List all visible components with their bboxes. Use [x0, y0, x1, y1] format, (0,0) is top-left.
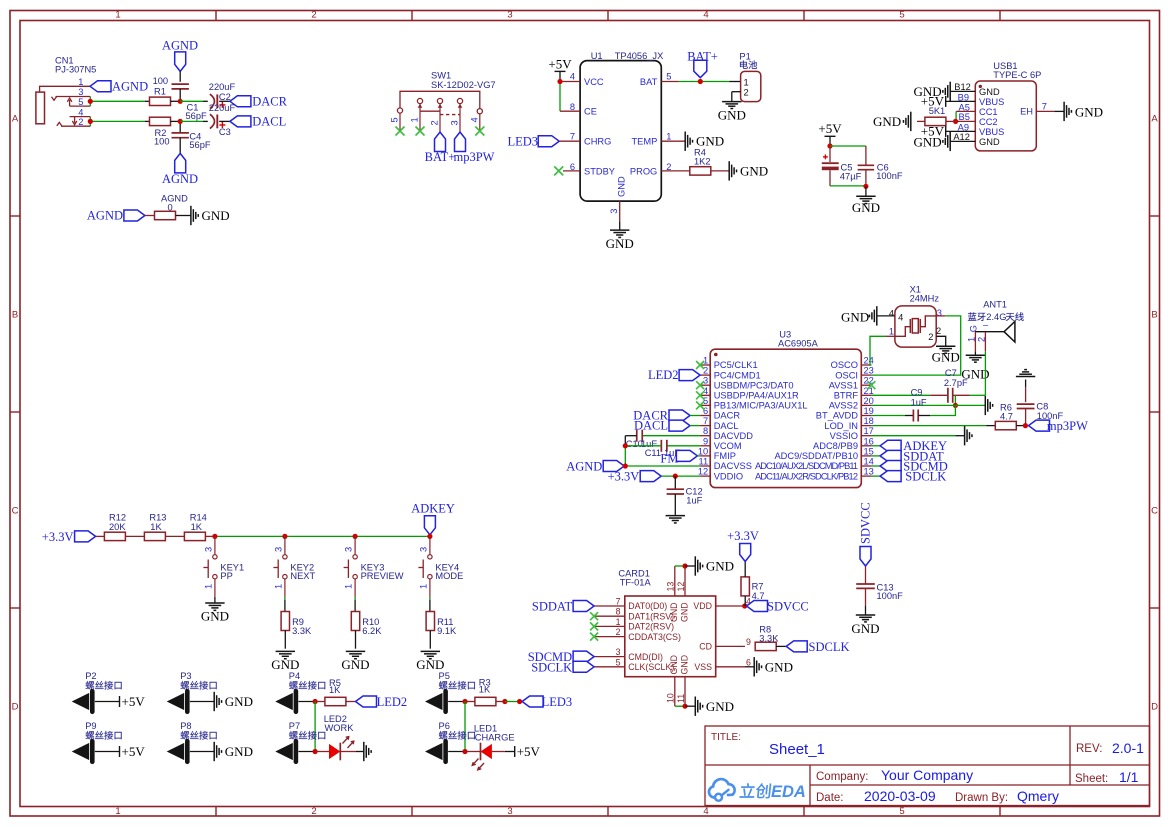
- svg-text:A: A: [1151, 114, 1158, 125]
- svg-text:PC5/CLK1: PC5/CLK1: [714, 360, 758, 370]
- ground at AVSS2: [871, 396, 992, 415]
- svg-text:AVSS1: AVSS1: [829, 380, 858, 390]
- ground at X1 pin2: [932, 336, 960, 364]
- svg-text:DACL: DACL: [634, 419, 668, 433]
- svg-text:3: 3: [507, 806, 512, 817]
- svg-text:GND: GND: [765, 659, 793, 674]
- svg-text:20: 20: [864, 396, 874, 406]
- svg-text:B12: B12: [954, 82, 971, 92]
- svg-text:TF-01A: TF-01A: [620, 578, 652, 588]
- svg-text:1K: 1K: [479, 685, 491, 695]
- svg-text:D: D: [12, 702, 19, 713]
- svg-text:17: 17: [864, 426, 874, 436]
- USB1 A9 +5V: [921, 123, 976, 138]
- connector P1 battery: [732, 51, 761, 101]
- LED LED2 WORK: [315, 714, 364, 760]
- svg-text:1: 1: [889, 327, 894, 337]
- svg-text:1: 1: [410, 117, 420, 122]
- svg-text:LED2: LED2: [648, 368, 679, 382]
- svg-text:4: 4: [470, 117, 480, 122]
- svg-text:GND: GND: [669, 602, 679, 622]
- connector P8: [167, 721, 217, 762]
- resistor R15 0ohm: [155, 194, 191, 220]
- svg-text:100: 100: [153, 76, 169, 86]
- U1 pin names: [584, 77, 658, 197]
- svg-text:GND: GND: [718, 107, 746, 122]
- svg-text:1/1: 1/1: [1119, 769, 1139, 785]
- svg-text:16: 16: [864, 436, 874, 446]
- net flag LED2 at U3 pin2: [648, 368, 700, 382]
- wire X1 pin1 to OSCO: [870, 336, 895, 365]
- svg-text:D: D: [1151, 702, 1158, 713]
- ground under C12: [666, 516, 685, 523]
- no-connect U1 STDBY: [554, 166, 580, 175]
- svg-text:2: 2: [430, 120, 440, 125]
- svg-text:1: 1: [78, 77, 83, 87]
- connector P7: [275, 721, 325, 762]
- resistor R12 20K: [104, 513, 144, 541]
- svg-text:B: B: [12, 310, 18, 321]
- capacitor C7 2.7pF: [871, 368, 985, 403]
- svg-text:Sheet_1: Sheet_1: [769, 741, 825, 758]
- wire U1 BAT to P1: [661, 79, 740, 84]
- U3 left pin names: [714, 360, 808, 481]
- ground at ANT1 pin1: [961, 351, 989, 381]
- net flag SDCMD at CARD1: [528, 650, 594, 664]
- net flag DACL at U3 pin7: [634, 419, 700, 433]
- resistor R6 4.7: [995, 403, 1025, 430]
- key KEY2 NEXT: [273, 534, 315, 612]
- net flag BAT+ at SW1: [425, 132, 456, 164]
- svg-text:18: 18: [864, 416, 874, 426]
- svg-text:1: 1: [966, 337, 976, 342]
- CARD1 bottom GND pins 10 11: [675, 677, 734, 716]
- svg-text:DACL: DACL: [714, 421, 739, 431]
- USB1 B12 ground: [914, 82, 976, 101]
- svg-text:CE: CE: [584, 107, 597, 117]
- ground at R15: [191, 206, 230, 225]
- svg-text:+5V: +5V: [517, 744, 541, 759]
- USB1 pin numbers: [953, 82, 1047, 142]
- svg-text:100nF: 100nF: [876, 171, 903, 181]
- svg-text:GND: GND: [841, 309, 869, 324]
- svg-text:FMIP: FMIP: [714, 451, 736, 461]
- svg-text:PJ-307N5: PJ-307N5: [55, 65, 96, 75]
- svg-text:3: 3: [203, 547, 213, 552]
- connector P6: [425, 721, 475, 762]
- svg-text:mp3PW: mp3PW: [454, 150, 495, 164]
- svg-text:4: 4: [78, 107, 83, 117]
- net flag DACR: [230, 94, 288, 108]
- net flag DACR at U3 pin6: [633, 409, 700, 423]
- svg-text:DAT1(RSV): DAT1(RSV): [628, 611, 674, 621]
- svg-text:3: 3: [616, 647, 621, 657]
- svg-text:P3: P3: [180, 671, 191, 681]
- svg-text:2.0-1: 2.0-1: [1112, 740, 1144, 756]
- svg-text:ANT1: ANT1: [983, 299, 1007, 309]
- svg-text:DAT2(RSV): DAT2(RSV): [628, 622, 674, 632]
- wire P5 to P6: [464, 702, 466, 752]
- no-connect U3 pin1: [696, 361, 704, 369]
- svg-text:6: 6: [746, 657, 751, 667]
- svg-text:AGND: AGND: [162, 172, 198, 186]
- resistor R8 3.3K: [755, 624, 786, 650]
- svg-text:GND: GND: [852, 200, 880, 215]
- svg-text:20K: 20K: [109, 522, 126, 532]
- crystal X1 24MHz: [895, 285, 939, 348]
- svg-text:VCOM: VCOM: [714, 441, 742, 451]
- svg-text:U1: U1: [591, 51, 603, 61]
- ground at U1 PROG: [729, 161, 768, 180]
- net flag SDDAT at U3 pin15: [871, 449, 944, 463]
- CARD1 left pin stubs: [594, 606, 625, 667]
- net flag ADKEY at U3 pin16: [871, 439, 947, 453]
- svg-text:GND: GND: [706, 699, 734, 714]
- svg-text:ADC8/PB9: ADC8/PB9: [813, 441, 858, 451]
- svg-text:SDCLK: SDCLK: [905, 470, 946, 484]
- power +5V at P2: [120, 694, 146, 709]
- ground at VSSIO: [871, 426, 972, 445]
- svg-text:C3: C3: [219, 127, 231, 137]
- svg-text:9: 9: [746, 637, 751, 647]
- svg-text:BAT+: BAT+: [425, 150, 456, 164]
- svg-text:1K: 1K: [150, 522, 162, 532]
- svg-text:ADC11/AUX2R/SDCLK/PB12: ADC11/AUX2R/SDCLK/PB12: [755, 471, 858, 481]
- svg-text:2: 2: [936, 326, 941, 336]
- svg-text:R1: R1: [154, 87, 166, 97]
- net flag FM at U3 pin10: [660, 450, 700, 465]
- title text: [711, 732, 1144, 804]
- capacitor C5 47uF: [822, 143, 862, 186]
- key KEY3 PREVIEW: [344, 534, 404, 612]
- svg-text:+5V: +5V: [548, 56, 572, 71]
- svg-text:DACR: DACR: [714, 411, 741, 421]
- svg-text:3: 3: [344, 547, 354, 552]
- svg-text:GND: GND: [225, 694, 253, 709]
- wire CARD1 VDD: [716, 603, 748, 608]
- svg-text:4.7: 4.7: [1000, 412, 1013, 422]
- svg-text:SDVCC: SDVCC: [767, 600, 809, 614]
- svg-text:220uF: 220uF: [209, 103, 236, 113]
- svg-text:B5: B5: [959, 112, 970, 122]
- connector P4: [275, 671, 325, 712]
- wire ADKEY bus: [215, 535, 430, 537]
- svg-text:ADKEY: ADKEY: [411, 501, 455, 515]
- USB1 CC1-CC2 wire: [953, 111, 975, 124]
- svg-text:P5: P5: [439, 671, 450, 681]
- svg-text:AGND: AGND: [566, 460, 602, 474]
- no-connect U3 pin4: [696, 391, 704, 399]
- power flag AGND above C1: [162, 39, 198, 82]
- svg-text:BT_AVDD: BT_AVDD: [816, 411, 858, 421]
- svg-text:1K: 1K: [329, 685, 341, 695]
- svg-text:DAT0(D0): DAT0(D0): [628, 601, 667, 611]
- svg-text:GND: GND: [979, 137, 1000, 147]
- svg-text:2: 2: [703, 366, 708, 376]
- no-connect CARD1 pin8: [590, 612, 598, 620]
- svg-text:+3.3V: +3.3V: [608, 470, 640, 484]
- svg-text:SK-12D02-VG7: SK-12D02-VG7: [431, 80, 496, 90]
- svg-text:1: 1: [418, 584, 428, 589]
- svg-text:LED2: LED2: [377, 695, 408, 709]
- U1 pin numbers: [570, 72, 672, 214]
- svg-text:GND: GND: [341, 657, 369, 672]
- net flag AGND at CN1 pin1: [90, 80, 148, 94]
- svg-text:LOD_IN: LOD_IN: [824, 421, 858, 431]
- svg-text:Date:: Date:: [816, 792, 844, 804]
- wire CARD1 CD: [716, 645, 745, 647]
- ground under C13: [851, 606, 879, 636]
- svg-text:13: 13: [864, 467, 874, 477]
- frame column numbers: [115, 10, 904, 818]
- net flag SDVCC above C13: [859, 502, 873, 566]
- junction R1-C1: [178, 99, 208, 104]
- svg-text:12: 12: [698, 467, 708, 477]
- connector P5: [425, 671, 475, 712]
- svg-text:PB13/MIC/PA3/AUX1L: PB13/MIC/PA3/AUX1L: [714, 401, 808, 411]
- resistor R1: [150, 76, 181, 106]
- svg-text:CC1: CC1: [979, 107, 998, 117]
- svg-text:Company:: Company:: [816, 771, 868, 783]
- svg-text:GND: GND: [1075, 104, 1103, 119]
- wire P4 to P7: [314, 702, 316, 752]
- svg-text:24: 24: [864, 356, 874, 366]
- power +5V at U1 VCC: [548, 56, 572, 81]
- power flag AGND below C4: [162, 153, 198, 186]
- svg-text:GND: GND: [669, 655, 679, 675]
- svg-text:+5V: +5V: [818, 121, 842, 136]
- capacitor C2: [209, 82, 236, 108]
- SW1 pin numbers: [390, 117, 480, 125]
- svg-text:Drawn By:: Drawn By:: [955, 792, 1008, 804]
- svg-text:VDD: VDD: [693, 601, 712, 611]
- svg-text:DACVDD: DACVDD: [714, 431, 754, 441]
- capacitor C11: [623, 440, 700, 458]
- resistor R5 1K: [315, 678, 355, 706]
- svg-text:6: 6: [703, 406, 708, 416]
- ground at P8: [214, 742, 253, 761]
- svg-text:+5V: +5V: [122, 744, 146, 759]
- U3 right pin names: [755, 360, 858, 481]
- svg-text:MODE: MODE: [435, 571, 463, 581]
- svg-text:CHRG: CHRG: [584, 137, 611, 147]
- svg-text:2: 2: [616, 627, 621, 637]
- power +5V at C5: [818, 121, 842, 146]
- svg-text:4: 4: [703, 386, 708, 396]
- svg-text:DACR: DACR: [252, 94, 287, 108]
- svg-text:2020-03-09: 2020-03-09: [864, 788, 936, 804]
- svg-text:LED3: LED3: [542, 695, 573, 709]
- ground at P3: [214, 692, 253, 711]
- junction R2-C4: [178, 119, 208, 124]
- svg-text:14: 14: [864, 457, 874, 467]
- svg-text:5: 5: [616, 657, 621, 667]
- svg-text:NEXT: NEXT: [290, 571, 315, 581]
- key KEY1 PP: [201, 534, 244, 624]
- svg-text:C8: C8: [1036, 402, 1048, 412]
- svg-text:5: 5: [666, 72, 671, 82]
- no-connect U3 pin5: [696, 401, 704, 409]
- ground at LED2: [364, 742, 371, 761]
- wire X1 pin3 to OSCI: [871, 316, 960, 375]
- net flag SDDAT at CARD1: [532, 600, 594, 614]
- net flag +3.3V at keys: [42, 530, 105, 544]
- svg-text:AGND: AGND: [112, 80, 148, 94]
- svg-text:GND: GND: [225, 744, 253, 759]
- power +5V at LED1: [515, 744, 541, 759]
- svg-text:CMD(DI): CMD(DI): [628, 652, 663, 662]
- wire jack pins 4-2 bridge: [88, 117, 150, 127]
- resistor R2: [150, 117, 181, 146]
- net flag mp3PW at R6: [1029, 419, 1089, 433]
- svg-text:100: 100: [154, 136, 170, 146]
- svg-text:PP: PP: [220, 571, 232, 581]
- CARD1 pin names: [628, 601, 712, 674]
- svg-text:P4: P4: [289, 671, 300, 681]
- IC CARD1 TF-01A body: [618, 569, 715, 677]
- svg-text:P6: P6: [439, 721, 450, 731]
- svg-text:SDCLK: SDCLK: [531, 661, 572, 675]
- net flag AGND at R15: [87, 209, 154, 223]
- svg-text:GND: GND: [617, 176, 627, 197]
- svg-text:4: 4: [889, 309, 894, 319]
- svg-text:A: A: [12, 114, 19, 125]
- svg-text:VSSIO: VSSIO: [830, 431, 858, 441]
- svg-text:3: 3: [450, 120, 460, 125]
- svg-text:1: 1: [273, 584, 283, 589]
- net flag LED3 at U1 CHRG: [507, 135, 580, 149]
- capacitor C13 100nF: [856, 566, 903, 606]
- net flag SDCMD at U3 pin14: [871, 459, 947, 473]
- svg-text:OSCO: OSCO: [831, 360, 858, 370]
- svg-text:WORK: WORK: [325, 723, 355, 733]
- svg-text:BTRF: BTRF: [834, 391, 859, 401]
- resistor R10 6.2K: [341, 612, 382, 673]
- antenna ANT1: [966, 299, 1023, 351]
- svg-text:C: C: [1151, 506, 1158, 517]
- svg-text:USBDM/PC3/DAT0: USBDM/PC3/DAT0: [714, 380, 794, 390]
- connector P2: [72, 671, 122, 712]
- svg-text:6.2K: 6.2K: [362, 626, 382, 636]
- svg-text:Sheet:: Sheet:: [1075, 773, 1108, 785]
- svg-text:GND: GND: [271, 657, 299, 672]
- svg-text:AVSS2: AVSS2: [829, 401, 858, 411]
- svg-text:3: 3: [78, 87, 83, 97]
- net flag mp3PW at SW1: [454, 132, 495, 164]
- power +5V at P9: [120, 744, 146, 759]
- svg-text:VCC: VCC: [584, 77, 604, 87]
- svg-text:GND: GND: [696, 134, 724, 149]
- svg-text:+5V: +5V: [122, 694, 146, 709]
- net flag LED2 at R5: [356, 695, 408, 709]
- capacitor C9 1uF: [871, 387, 955, 421]
- X1 pin numbers: [889, 308, 942, 342]
- wire jack pins 3-5 bridge: [88, 97, 150, 107]
- USB1 B9 +5V: [921, 94, 976, 109]
- capacitor C3: [209, 103, 236, 137]
- LED LED1 CHARGE: [465, 724, 515, 770]
- svg-text:ADC10/AUX2L/SDCMD/PB11: ADC10/AUX2L/SDCMD/PB11: [755, 461, 858, 471]
- svg-text:P8: P8: [180, 721, 191, 731]
- capacitor C6 100nF: [830, 146, 903, 186]
- svg-text:P7: P7: [289, 721, 300, 731]
- svg-text:4: 4: [898, 312, 903, 322]
- svg-text:AGND: AGND: [161, 194, 188, 204]
- svg-text:1K: 1K: [191, 522, 203, 532]
- net flag LED3 at R3: [522, 695, 572, 709]
- svg-text:mp3PW: mp3PW: [1047, 419, 1088, 433]
- wire R3 to LED3: [502, 699, 522, 704]
- net flag ADKEY above KEY4: [411, 501, 455, 534]
- svg-text:100nF: 100nF: [877, 591, 904, 601]
- svg-text:2: 2: [311, 10, 316, 21]
- svg-text:5: 5: [390, 117, 400, 122]
- net flag BAT+ above wire: [687, 49, 718, 77]
- svg-text:15: 15: [864, 446, 874, 456]
- connector CN1 PJ-307N5 body: [36, 86, 90, 126]
- connector P3: [167, 671, 217, 712]
- svg-text:1: 1: [616, 617, 621, 627]
- capacitor C10: [625, 430, 700, 466]
- svg-text:EH: EH: [1020, 106, 1033, 116]
- svg-text:24MHz: 24MHz: [910, 294, 940, 304]
- svg-text:C2: C2: [219, 92, 231, 102]
- svg-text:2: 2: [744, 88, 749, 98]
- svg-text:56pF: 56pF: [186, 111, 208, 121]
- svg-text:STDBY: STDBY: [584, 166, 615, 176]
- svg-text:DACVSS: DACVSS: [714, 461, 752, 471]
- net flag +3.3V above R7: [727, 529, 759, 561]
- resistor R4: [661, 148, 729, 176]
- svg-text:8: 8: [616, 607, 621, 617]
- svg-text:11: 11: [699, 457, 709, 467]
- svg-text:C9: C9: [911, 387, 923, 397]
- svg-text:9.1K: 9.1K: [437, 626, 457, 636]
- capacitor C12: [667, 476, 703, 515]
- svg-text:19: 19: [864, 406, 874, 416]
- U1 GND pin3 wire and ground: [606, 201, 634, 251]
- IC U3 AC6905A body: [710, 330, 861, 488]
- svg-text:OSCI: OSCI: [835, 370, 858, 380]
- svg-text:5: 5: [899, 10, 904, 21]
- svg-text:VBUS: VBUS: [979, 97, 1004, 107]
- wire LOD_IN to R6: [871, 425, 995, 427]
- ground above C8: [1016, 370, 1035, 388]
- svg-text:11: 11: [676, 694, 686, 703]
- svg-text:CDDAT3(CS): CDDAT3(CS): [628, 632, 681, 642]
- svg-text:5: 5: [703, 396, 708, 406]
- CARD1 top GND pins 13 12: [675, 556, 734, 596]
- svg-text:2: 2: [928, 332, 933, 342]
- svg-text:GND: GND: [873, 114, 901, 129]
- svg-text:13: 13: [666, 582, 676, 592]
- capacitor C8 100nF: [1017, 387, 1064, 426]
- svg-text:2.7pF: 2.7pF: [944, 378, 968, 388]
- no-connect CARD1 pin2: [590, 633, 598, 641]
- svg-text:10: 10: [698, 446, 708, 456]
- svg-text:1uF: 1uF: [686, 495, 702, 505]
- svg-text:8: 8: [703, 426, 708, 436]
- ground at P1 pin2: [718, 92, 746, 123]
- USB1 A12 ground: [914, 132, 976, 151]
- svg-text:7: 7: [570, 132, 575, 142]
- svg-text:GND: GND: [851, 621, 879, 636]
- svg-text:3: 3: [418, 547, 428, 552]
- svg-text:GND: GND: [201, 609, 229, 624]
- IC U1 TP4056_JX body: [580, 51, 663, 201]
- svg-text:SDDAT: SDDAT: [532, 600, 573, 614]
- svg-text:P2: P2: [85, 671, 96, 681]
